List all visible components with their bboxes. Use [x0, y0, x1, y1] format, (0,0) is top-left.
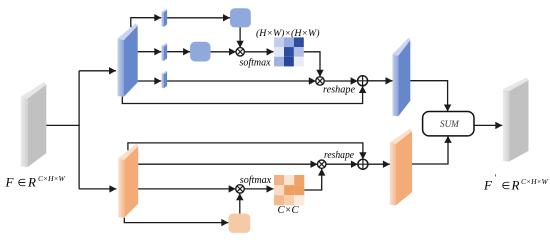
channel attention output block O2	[390, 129, 412, 206]
reshape slab 3 (value)	[162, 71, 168, 89]
wire conv box 1 down to matmul 1	[236, 27, 243, 47]
svg-text:C×C: C×C	[277, 205, 299, 216]
elementwise add op 1	[358, 76, 368, 86]
wire matmul 4 to add op 2	[326, 161, 358, 168]
svg-text:R: R	[27, 175, 36, 190]
svg-text:R: R	[511, 178, 520, 193]
svg-text:softmax: softmax	[240, 174, 271, 186]
residual wire A2 top to add op 2	[128, 143, 367, 159]
wire B1 top to reshape slab 1	[131, 14, 162, 27]
wire reshape slab 1 to conv box 1	[167, 14, 230, 21]
input feature map F	[21, 82, 47, 167]
wire A2 bottom to conv box 3	[124, 218, 228, 227]
svg-text:∈: ∈	[502, 181, 511, 192]
conv box 2 (key transform)	[190, 42, 210, 62]
matmul op 2	[316, 77, 324, 85]
conv box 1 (query transform)	[230, 8, 251, 27]
wire add op 2 to output block O2	[368, 161, 390, 168]
matmul op 3	[236, 185, 244, 193]
conv box 3 (channel transform)	[229, 214, 251, 233]
wire conv box 2 to matmul 1	[211, 48, 237, 55]
wire from F to branch junction	[46, 124, 79, 126]
position attention output block B2	[393, 38, 411, 117]
wire A2 to matmul 3	[138, 185, 236, 192]
reshape slab 1 (query)	[162, 9, 168, 27]
channel-branch feature block A2	[118, 144, 138, 218]
svg-text:softmax: softmax	[240, 56, 271, 68]
label F output	[483, 173, 549, 193]
matmul op 1	[236, 48, 244, 56]
label F input	[5, 174, 66, 190]
wire conv box 3 up to matmul 3	[236, 193, 243, 213]
wire B1 to reshape slab 2	[138, 48, 162, 55]
wire matmul 1 to spatial attention map	[244, 48, 273, 55]
svg-text:F: F	[5, 175, 15, 190]
wire into channel branch block A2	[79, 185, 116, 192]
wire B2 to SUM	[410, 81, 451, 112]
elementwise add op 2	[358, 159, 368, 169]
wire reshape slab 3 to matmul 2	[167, 77, 316, 84]
svg-text:reshape: reshape	[324, 149, 354, 161]
branch junction vertical wire	[78, 71, 80, 189]
position-branch feature block B1	[118, 23, 138, 96]
reshape slab 2 (key)	[162, 43, 168, 61]
wire matmul 2 to add op 1	[324, 77, 357, 84]
wire matmul 3 to channel attention map	[244, 185, 273, 192]
wire B1 to reshape slab 3	[138, 77, 162, 84]
wire into position branch block B1	[79, 67, 116, 74]
spatial attention map (HxW)x(HxW)	[274, 37, 304, 66]
output feature map F'	[503, 78, 529, 162]
svg-text:SUM: SUM	[440, 119, 459, 129]
wire SUM to output F'	[474, 122, 502, 129]
wire channel attention map to matmul 4	[304, 169, 325, 190]
wire A2 to matmul 4	[138, 161, 317, 168]
svg-text:F: F	[483, 178, 493, 193]
svg-text:C×H×W: C×H×W	[38, 174, 66, 183]
svg-text:C×H×W: C×H×W	[521, 177, 549, 186]
residual wire B1 bottom to add op 1	[122, 86, 366, 104]
wire attention map to matmul 2	[304, 52, 324, 77]
SUM fusion box	[423, 112, 474, 136]
svg-text:reshape: reshape	[323, 84, 355, 96]
svg-text:(H×W)×(H×W): (H×W)×(H×W)	[256, 28, 320, 39]
svg-text:∈: ∈	[18, 178, 27, 189]
channel attention map CxC	[274, 175, 304, 205]
wire O2 to SUM	[412, 136, 452, 164]
wire add op 1 to output block B2	[368, 77, 393, 84]
matmul op 4	[318, 160, 326, 168]
wire reshape slab 2 to conv box 2	[167, 48, 190, 55]
